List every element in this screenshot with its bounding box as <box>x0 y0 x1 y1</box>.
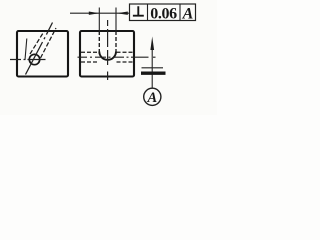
tilted hole side hidden line (right) <box>41 28 57 58</box>
vertical hole left side hidden line <box>98 31 100 52</box>
svg-text:0.06: 0.06 <box>150 6 177 23</box>
extension line right <box>115 8 117 32</box>
datum circle <box>144 88 161 105</box>
horizontal hole lower hidden line <box>81 61 99 63</box>
svg-text:A: A <box>182 6 194 23</box>
horizontal centerline of hole circle <box>10 59 46 61</box>
up arrowhead on datum leader <box>150 37 154 51</box>
horizontal axis centerline (datum axis A) <box>78 56 156 58</box>
left block outline <box>17 31 68 77</box>
dimension leader line <box>70 12 130 14</box>
arrowhead pointing left at right extension line <box>117 12 128 15</box>
feature control frame <box>130 4 196 21</box>
perpendicularity symbol <box>133 6 144 16</box>
thin horizontal line above datum bar <box>142 67 164 69</box>
oblique axis centerline (tilted hole axis) <box>26 23 53 75</box>
horizontal hole upper hidden line <box>81 51 99 53</box>
arrowhead pointing right at left extension line <box>89 12 100 15</box>
thick datum bar <box>141 71 166 74</box>
datum leader vertical line <box>151 44 153 88</box>
extension line left <box>98 8 100 32</box>
hole bottom U arc <box>99 52 116 60</box>
tilted hole side hidden line (left) <box>30 32 44 55</box>
vertical hole right side hidden line <box>115 31 117 52</box>
vertical axis centerline <box>107 20 109 80</box>
middle block outline <box>80 31 134 77</box>
near-vertical ideal axis line <box>25 39 27 61</box>
hole circle (left view, datum hole A end view) <box>29 54 39 64</box>
svg-text:A: A <box>146 90 157 106</box>
